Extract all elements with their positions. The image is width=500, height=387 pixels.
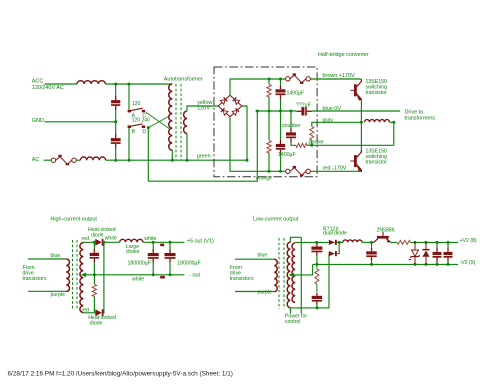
bridge diode D3 (- to AC-L) xyxy=(221,108,228,115)
junction Q3 in/C12 xyxy=(370,241,373,244)
capacitor C14 xyxy=(447,248,448,252)
wire Q1 emitter to Q2 collector xyxy=(360,101,362,151)
diode D6 (heat-sinked, bottom) xyxy=(95,309,101,316)
svg-text:-V2 (9): -V2 (9) xyxy=(460,260,476,266)
wire bridge - to fuse F2 (-170V rail) xyxy=(230,117,286,172)
capacitor C5 ???uF xyxy=(296,111,301,112)
wire A feed xyxy=(128,84,130,110)
bridge diode D1 (AC-L to +) xyxy=(220,97,227,104)
junction -V2/cap1 xyxy=(436,263,439,266)
svg-text:orange: orange xyxy=(256,175,272,181)
junction -rail/C4 xyxy=(279,170,282,173)
wire GND xyxy=(45,121,116,123)
wire drive out to purple xyxy=(390,122,394,145)
svg-text:180000µF: 180000µF xyxy=(128,260,151,266)
wire ctap to R5 xyxy=(93,275,95,285)
svg-text:120V: 120V xyxy=(197,106,210,112)
transformer T3 core xyxy=(279,238,284,309)
wire L5 to Q3 xyxy=(362,241,374,243)
junction +5/C9 xyxy=(169,241,172,244)
wire +V2 to C13 xyxy=(436,242,438,247)
diode D5 (heat-sinked, top) xyxy=(95,239,101,246)
diode D10 xyxy=(425,242,427,250)
junction 0V/C3 xyxy=(279,110,282,113)
svg-text:120: 120 xyxy=(132,101,141,107)
wire secondary top to D5 xyxy=(83,242,95,243)
diode D8 (R712X b) xyxy=(329,251,335,256)
svg-text:red -170V: red -170V xyxy=(323,165,347,171)
wire purple to T2 primary xyxy=(28,290,66,292)
wire C10 to -V2 rail xyxy=(316,255,318,264)
svg-text:blue: blue xyxy=(51,253,61,259)
wire L1 to autotransformer top xyxy=(105,83,172,85)
resistor R3 (snubber) xyxy=(296,143,307,147)
svg-text:240: 240 xyxy=(142,118,151,124)
wire R2 to -rail xyxy=(268,153,270,171)
junction +rail/R1 xyxy=(268,78,271,81)
wire to C10 xyxy=(316,242,318,244)
svg-text:2N5886: 2N5886 xyxy=(377,227,395,233)
junction ctap/C9 xyxy=(169,273,172,276)
wire C11 to bottom xyxy=(316,304,318,308)
svg-text:diode: diode xyxy=(91,232,104,238)
autotransformer secondary winding xyxy=(184,111,187,134)
junction L3/purple riser xyxy=(392,121,395,124)
wire red -170V xyxy=(310,170,361,172)
wire breaker to L2 xyxy=(76,159,80,161)
wire D down (orange return) xyxy=(147,128,149,182)
junction 0V/R1 xyxy=(268,110,271,113)
wire Q3 emitter out xyxy=(390,241,397,243)
svg-text:transistor: transistor xyxy=(366,90,388,96)
junction -V2/zener xyxy=(414,263,417,266)
inductor L4 Large choke xyxy=(120,239,143,242)
junction neutral/winding2 xyxy=(186,159,189,162)
capacitor C12 xyxy=(371,248,372,252)
svg-text:control: control xyxy=(285,319,301,325)
wire stub to control (left) xyxy=(289,308,291,314)
junction neutral/C2 xyxy=(114,159,117,162)
svg-text:gray: gray xyxy=(323,117,334,123)
capacitor C7 xyxy=(94,249,95,253)
junction +V2/zener xyxy=(414,241,417,244)
autotransformer core xyxy=(175,84,177,160)
svg-text:Autotransformer: Autotransformer xyxy=(164,77,203,83)
svg-text:transistor: transistor xyxy=(366,159,388,165)
switch SW1 arm B-D xyxy=(128,125,131,128)
junction +V2/diode xyxy=(425,241,428,244)
junction +rail/C3 xyxy=(279,78,282,81)
svg-text:red: red xyxy=(82,236,90,242)
inductor L2 (line filter, neutral) xyxy=(80,157,105,160)
transformer T2 core xyxy=(72,240,74,310)
svg-text:ACC: ACC xyxy=(32,79,44,85)
transformer T3 secondary winding A xyxy=(292,243,295,302)
tap arrow (HC center tap) xyxy=(81,273,86,278)
wire D7 out xyxy=(337,241,343,243)
wire B to neutral rail xyxy=(128,128,130,160)
junction D7 anode/C10 xyxy=(315,241,318,244)
svg-text:white: white xyxy=(144,236,156,242)
wire secondary bottom to D6 xyxy=(83,312,95,314)
wire D5 to choke xyxy=(104,241,120,243)
junction bottom/C11 xyxy=(316,306,319,309)
svg-text:diode: diode xyxy=(90,321,103,327)
wire 0V left segment (blue) xyxy=(256,110,297,112)
wire -V2 rail xyxy=(313,263,458,265)
junction snubber/purple xyxy=(310,144,313,147)
bridge diode D4 (- to AC-R) xyxy=(232,108,239,115)
capacitor C13 xyxy=(436,248,437,252)
wire C2 to AC neutral xyxy=(115,148,117,161)
bridge rectifier D1-D4 xyxy=(218,95,242,117)
capacitor C11 xyxy=(316,293,317,296)
junction GND/C1/C2 xyxy=(114,120,117,123)
junction -V2/cap2 xyxy=(447,263,450,266)
svg-text:GND: GND xyxy=(32,118,44,124)
wire brown +170V xyxy=(310,78,361,80)
wire C12 to -V2 rail xyxy=(371,261,373,265)
fuse F2 (-170V) xyxy=(286,169,290,173)
svg-text:transistors: transistors xyxy=(230,276,254,282)
wire +5 to C7 xyxy=(93,242,95,249)
wire +rail to R1 xyxy=(268,79,270,84)
junction -V2/C10 chain xyxy=(315,263,318,266)
junction neutral/winding1 xyxy=(171,159,174,162)
svg-text:transformers: transformers xyxy=(405,116,436,122)
svg-text:- out: - out xyxy=(189,273,200,279)
svg-text:brown +170V: brown +170V xyxy=(323,73,356,79)
wire junction to R4 xyxy=(311,140,313,145)
svg-text:dual diode: dual diode xyxy=(323,231,347,237)
capacitor C6 (snubber) xyxy=(290,128,291,132)
wire D6 to +5 rail xyxy=(103,242,105,312)
svg-text:+V2 (8): +V2 (8) xyxy=(460,238,477,244)
svg-text:AC: AC xyxy=(32,157,40,163)
resistor R1 (bleeder +) xyxy=(267,85,271,98)
zener diode D9 xyxy=(414,242,416,250)
circuit breaker S1 (AC line) xyxy=(51,158,55,162)
resistor R5 (bleeder) xyxy=(92,284,96,296)
junction 0V/orange return xyxy=(256,110,259,113)
transformer T3 secondary winding B xyxy=(287,242,290,308)
wire orange 0V return xyxy=(148,111,257,181)
junction -V2/diode xyxy=(425,263,428,266)
svg-text:purple: purple xyxy=(258,289,273,295)
svg-text:white: white xyxy=(132,276,144,282)
junction ctap/C7-R5 xyxy=(93,273,96,276)
wire yellow 120V to bridge xyxy=(187,106,218,111)
wire R5 to bottom xyxy=(93,297,95,313)
junction ACC/switch A xyxy=(128,83,131,86)
wire bridge AC-R to neutral rail xyxy=(242,106,247,160)
wire +5 rail xyxy=(143,241,185,243)
wire blue to T2 primary xyxy=(28,258,66,260)
enclosure box (dash-dot) xyxy=(214,67,317,177)
svg-text:1400µF: 1400µF xyxy=(287,90,305,96)
inductor L1 (line filter, hot) xyxy=(77,81,105,84)
wire to C9 xyxy=(169,242,171,249)
capacitor C9 180000uF xyxy=(169,249,170,253)
inductor L5 xyxy=(343,240,362,243)
junction +5 rail/D6 riser xyxy=(102,241,105,244)
inductor L3 (drive) xyxy=(365,120,390,123)
wire ACC to C1 xyxy=(115,84,117,97)
wire C7 to ctap xyxy=(93,262,95,275)
junction 0V/snubber xyxy=(290,110,293,113)
wire R3 to purple junction xyxy=(307,144,312,146)
capacitor C3 1400uF xyxy=(280,85,281,89)
svg-text:D: D xyxy=(142,129,146,135)
wire +V2 rail xyxy=(411,241,459,243)
resistor R4 (snubber) xyxy=(310,127,314,141)
polarity mark + (bottom) xyxy=(160,276,165,279)
fuse F1 (+170V) xyxy=(286,77,290,81)
svg-text:Drive to: Drive to xyxy=(405,109,424,115)
transistor Q3 2N5886 (pass) xyxy=(377,236,389,239)
svg-text:blue 0V: blue 0V xyxy=(323,106,342,112)
wire winding2 bottom to green rail xyxy=(186,134,188,161)
wire winding bottom xyxy=(290,307,329,309)
junction D xyxy=(147,126,150,129)
svg-text:blue: blue xyxy=(258,253,268,259)
wire winding B top jog xyxy=(290,237,301,242)
wire AC neutral rail (green) xyxy=(106,159,247,161)
svg-text:choke: choke xyxy=(126,249,140,255)
transistor Q1 13SE150 (upper) xyxy=(354,84,357,96)
wire purple to T3 primary xyxy=(235,291,274,293)
wire +V2 to C14 xyxy=(447,242,449,247)
diode D7 (R712X a) xyxy=(329,240,335,245)
polarity mark + (top) xyxy=(160,244,164,247)
svg-text:Low-current output: Low-current output xyxy=(253,217,299,223)
wire R6 to C11 xyxy=(316,284,318,292)
wire rail to R6 xyxy=(316,264,318,268)
junction bridge AC-R/neutral xyxy=(246,159,249,162)
wire 0V to C4 xyxy=(280,111,282,140)
wire C3 to 0V xyxy=(280,99,282,111)
junction ctap/C8 xyxy=(152,273,155,276)
svg-text:white: white xyxy=(105,236,117,242)
svg-text:purple: purple xyxy=(51,292,66,298)
wire 0V to snubber cap xyxy=(290,111,292,129)
wire to C8 xyxy=(152,242,154,249)
junction +5/C7 xyxy=(93,241,96,244)
svg-text:Half-bridge converter: Half-bridge converter xyxy=(318,52,369,58)
svg-text:High-current output: High-current output xyxy=(50,216,97,222)
wire +rail to C3 xyxy=(280,79,282,86)
wire ACC to L1 xyxy=(45,83,78,85)
junction ACC/C1 xyxy=(114,83,117,86)
transformer T2 secondary winding xyxy=(80,243,83,313)
junction neutral/switch B xyxy=(128,159,131,162)
wire center tap -out rail xyxy=(83,274,184,276)
wire C9 to ctap xyxy=(169,263,171,275)
wire winding bottom to D8 xyxy=(328,254,330,308)
capacitor C10 xyxy=(316,244,317,247)
wire purple xyxy=(312,144,394,146)
resistor R7 xyxy=(397,240,411,244)
capacitor C8 180000uF xyxy=(153,249,154,253)
wire bridge + to fuse F1 (+170V rail) xyxy=(230,79,286,95)
svg-text:6/28/17 2:16 PM f=1.20 /User: 6/28/17 2:16 PM f=1.20 /Users/ken/blog/A… xyxy=(8,371,233,378)
svg-text:transistors: transistors xyxy=(23,276,47,282)
wire D8 cathode up xyxy=(337,242,339,253)
wire C8 to ctap xyxy=(152,263,154,275)
capacitor C1 (line filter) xyxy=(115,96,116,100)
wire blue 0V out xyxy=(312,110,400,112)
capacitor C4 1400uF xyxy=(280,140,281,144)
junction D7/D8 cathodes xyxy=(338,241,341,244)
wire winding1 bottom to neutral xyxy=(171,150,173,160)
junction -rail/R2 xyxy=(268,170,271,173)
transformer T3 primary winding xyxy=(274,259,277,292)
wire 0V to R2 xyxy=(268,111,270,140)
svg-text:120/240V AC: 120/240V AC xyxy=(32,85,64,91)
resistor R6 xyxy=(315,269,319,284)
wire C4 to -rail xyxy=(280,153,282,171)
transistor Q2 13SE150 (lower) xyxy=(354,155,357,167)
resistor R2 (bleeder -) xyxy=(267,141,271,154)
junction +V2/cap2 xyxy=(447,241,450,244)
capacitor C2 (line filter) xyxy=(115,134,116,138)
wire gray xyxy=(312,122,362,126)
wire R1 to 0V xyxy=(268,97,270,111)
junction +V2/cap1 xyxy=(436,241,439,244)
wire secondary top to D7 xyxy=(295,241,329,243)
svg-text:red: red xyxy=(82,308,90,314)
wire C to lower tap (crossing) xyxy=(146,112,169,128)
svg-text:purple: purple xyxy=(309,139,324,145)
wire to C12 xyxy=(371,242,373,248)
junction -V2/C12 xyxy=(370,263,373,266)
junction +5/C8 xyxy=(152,241,155,244)
wire GND to C2 xyxy=(115,122,117,135)
wire snubber cap to R3 xyxy=(291,141,296,145)
wire D to upper tap (crossing) xyxy=(148,116,169,128)
svg-text:120: 120 xyxy=(132,118,141,124)
switch SW1 arm A-C xyxy=(128,110,131,113)
wire winding return (control) xyxy=(300,237,302,313)
tap arrow (control winding) xyxy=(294,264,313,275)
autotransformer primary winding xyxy=(169,84,173,150)
wire AC to breaker xyxy=(44,159,52,161)
transformer T2 primary winding xyxy=(66,259,69,292)
svg-text:180000µF: 180000µF xyxy=(177,260,200,266)
junction totem mid/gray xyxy=(360,121,363,124)
svg-text:green: green xyxy=(197,153,211,159)
svg-text:+5 out (V1): +5 out (V1) xyxy=(187,238,214,244)
bridge diode D2 (AC-R to +) xyxy=(232,97,239,104)
wire blue to T3 primary xyxy=(235,258,274,260)
wire C1 to GND xyxy=(115,110,117,122)
